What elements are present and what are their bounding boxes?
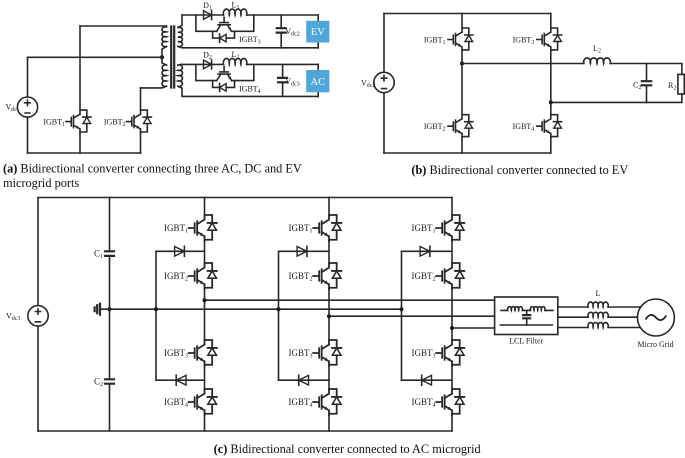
wire: IGBT4 branch left: [196, 64, 213, 80]
svg-text:IGBT1: IGBT1: [412, 223, 436, 235]
diode D1: [204, 11, 212, 20]
svg-text:L: L: [596, 289, 601, 298]
svg-text:IGBT1: IGBT1: [164, 223, 188, 235]
wire: leg3 clamp vertical: [401, 251, 403, 380]
transistor IGBT4: [537, 115, 562, 138]
wire: IGBT1 collector: [79, 26, 81, 110]
LCL filter inductor 1: [508, 307, 523, 311]
transistor IGBT2 leg1: [189, 263, 217, 289]
diode D2: [204, 60, 212, 69]
svg-text:microgrid ports: microgrid ports: [3, 176, 79, 190]
transistor IGBT3 leg2: [313, 340, 341, 366]
svg-text:IGBT3: IGBT3: [164, 348, 188, 360]
wire: leg2 vertical: [328, 198, 330, 432]
transistor IGBT4 leg1: [189, 389, 217, 415]
wire: mid rail from source + to center tap: [28, 56, 163, 58]
wire: phase line 2: [329, 315, 495, 317]
svg-text:IGBT3: IGBT3: [513, 35, 535, 46]
inductor L phase 2: [588, 312, 608, 317]
legs of circuit (c) inserted here: [154, 198, 217, 432]
AC port box: [317, 64, 319, 96]
svg-text:Micro Grid: Micro Grid: [637, 340, 673, 349]
transistor IGBT2: [448, 115, 473, 138]
svg-text:IGBT2: IGBT2: [289, 271, 313, 283]
node: leg1 midpoint: [203, 298, 207, 302]
wire: bottom rail: [28, 152, 141, 154]
transformer T1 secondary top winding: [178, 27, 182, 46]
wire: bottom rail: [384, 152, 551, 154]
transistor IGBT2 leg2: [313, 263, 341, 289]
inductor L2: [584, 58, 611, 64]
node: leg2 midpoint: [327, 314, 331, 318]
svg-text:IGBT2: IGBT2: [424, 122, 446, 133]
transformer T1 primary top winding: [162, 27, 167, 47]
transistor IGBT1 leg1: [189, 215, 217, 241]
wire: grid line 1: [558, 306, 641, 308]
wire: grid line 3: [558, 327, 641, 329]
wire: leg2 upper clamp link: [279, 250, 330, 252]
svg-text:IGBT4: IGBT4: [239, 85, 261, 96]
inductor L2: [223, 58, 247, 64]
node: leg2 clamp neutral: [277, 307, 281, 311]
EV port box: [317, 15, 319, 48]
svg-text:(c) Bidirectional converter co: (c) Bidirectional converter connected to…: [214, 442, 481, 456]
svg-text:IGBT4: IGBT4: [164, 397, 188, 409]
svg-text:IGBT4: IGBT4: [513, 122, 535, 133]
svg-text:IGBT2: IGBT2: [104, 117, 126, 128]
svg-text:EV: EV: [311, 27, 325, 38]
svg-text:IGBT4: IGBT4: [289, 397, 313, 409]
wire: left leg middle: [461, 51, 463, 115]
wire: upper output line: [462, 64, 682, 75]
wire: IGBT4 branch right: [236, 64, 254, 80]
transistor IGBT3: [537, 28, 562, 51]
wire: IGBT2 emitter: [140, 133, 142, 153]
wire: primary top rail: [80, 25, 167, 27]
svg-text:IGBT1: IGBT1: [424, 35, 446, 46]
inductor L1: [223, 9, 247, 15]
diode lower clamp leg2: [299, 375, 309, 385]
wire: leg1 lower clamp link: [156, 379, 205, 381]
transistor IGBT3 leg3: [436, 340, 464, 366]
wire: leg1 upper clamp link: [156, 250, 205, 252]
capacitor Vdc2: [280, 15, 282, 48]
svg-text:IGBT2: IGBT2: [412, 271, 436, 283]
transformer T1 primary bottom winding: [162, 65, 166, 87]
wire: phase line 3: [452, 327, 495, 329]
voltage source Vdc3: [37, 198, 39, 432]
transistor IGBT1 leg3: [436, 215, 464, 241]
svg-text:IGBT3: IGBT3: [239, 35, 261, 46]
node: bus midpoint: [108, 307, 112, 311]
transistor IGBT2: [127, 110, 152, 133]
wire: lower output line: [551, 94, 682, 102]
LCL filter capacitor: [526, 310, 528, 325]
node: leg3 clamp neutral: [400, 307, 404, 311]
wire: IGBT3 branch left: [196, 15, 213, 31]
wire: IGBT1 emitter: [79, 133, 81, 153]
transformer T1 secondary bottom winding: [178, 65, 182, 87]
diode upper clamp leg3: [420, 247, 430, 257]
transistor IGBT1 leg2: [313, 215, 341, 241]
wire: left leg top: [461, 14, 463, 29]
wire: primary bottom to IGBT2: [141, 86, 167, 88]
wire: leg1 clamp vertical: [155, 251, 157, 380]
capacitor C2: [105, 379, 114, 383]
capacitor C2: [646, 64, 648, 103]
diode upper clamp leg1: [175, 247, 185, 257]
svg-text:LCL Filter: LCL Filter: [509, 336, 543, 345]
wire: AC stage top rail: [181, 63, 318, 65]
wire: leg3 upper clamp link: [402, 250, 453, 252]
wire: left leg bottom: [461, 138, 463, 153]
wire: IGBT3 branch right: [236, 15, 254, 31]
wire: neutral line: [110, 308, 402, 310]
LCL filter box: [495, 297, 558, 335]
transistor IGBT3: [213, 17, 236, 42]
diode lower clamp leg1: [176, 375, 186, 385]
LCL filter internal wire: [501, 309, 553, 311]
grid source circle: [637, 299, 674, 336]
node: center tap: [160, 55, 164, 59]
wire: primary center-tap jog: [162, 47, 167, 66]
capacitor C1: [105, 251, 114, 256]
LCL filter bottom wire: [500, 324, 552, 326]
wire: right leg bottom: [550, 138, 552, 153]
node: leg1 clamp neutral: [154, 307, 158, 311]
wire: grid line 2: [558, 316, 638, 318]
voltage source Vdc: [27, 57, 29, 153]
transformer T1 core: [171, 27, 174, 88]
sine symbol: [646, 315, 667, 320]
wire: AC stage bottom rail: [178, 86, 318, 96]
transistor IGBT1: [448, 28, 473, 51]
transistor IGBT2 leg3: [436, 263, 464, 289]
svg-text:IGBT3: IGBT3: [289, 348, 313, 360]
wire: leg3 lower clamp link: [402, 379, 453, 381]
transistor IGBT4: [213, 67, 236, 92]
capacitor Vdc3: [282, 64, 284, 96]
svg-text:IGBT3: IGBT3: [412, 348, 436, 360]
resistor R2: [678, 74, 684, 94]
transistor IGBT3 leg1: [189, 340, 217, 366]
node: leg3 midpoint: [450, 326, 454, 330]
node: left leg midpoint: [460, 62, 464, 66]
wire: top rail: [38, 197, 452, 199]
wire: EV stage top rail: [182, 14, 318, 16]
wire: leg2 lower clamp link: [279, 379, 330, 381]
wire: DC bus top: [109, 198, 111, 432]
svg-text:AC: AC: [311, 77, 326, 88]
inductor L phase 1: [588, 302, 608, 307]
wire: right leg top: [550, 14, 552, 29]
svg-text:IGBT4: IGBT4: [412, 397, 436, 409]
svg-text:(a) Bidirectional converter co: (a) Bidirectional converter connecting t…: [3, 162, 302, 176]
transistor IGBT1: [66, 110, 91, 133]
LCL filter inductor 2: [530, 307, 545, 311]
svg-text:IGBT1: IGBT1: [43, 117, 65, 128]
svg-text:IGBT1: IGBT1: [289, 223, 313, 235]
transistor IGBT4 leg2: [313, 389, 341, 415]
wire: leg1 vertical: [204, 198, 206, 432]
voltage source Vdc2: [383, 14, 385, 154]
svg-text:(b) Bidirectional converter co: (b) Bidirectional converter connected to…: [411, 163, 628, 177]
diode lower clamp leg3: [422, 375, 432, 385]
wire: right leg middle: [550, 51, 552, 115]
wire: IGBT2 collector: [140, 88, 142, 110]
wire: secondary top to EV top rail: [178, 15, 182, 28]
diode upper clamp leg2: [297, 247, 307, 257]
wire: leg2 clamp vertical: [278, 251, 280, 380]
wire: EV stage bottom rail: [178, 47, 318, 48]
node: right leg midpoint: [549, 100, 553, 104]
inductor L phase 3: [588, 323, 608, 328]
wire: bottom rail: [38, 430, 452, 432]
wire: phase line 1: [205, 299, 495, 301]
wire: secondary bottom to AC top rail: [178, 63, 181, 66]
ground: [100, 308, 110, 310]
wire: leg3 vertical: [451, 198, 453, 432]
transistor IGBT4 leg3: [436, 389, 464, 415]
svg-text:IGBT2: IGBT2: [164, 271, 188, 283]
wire: top rail: [384, 13, 551, 15]
